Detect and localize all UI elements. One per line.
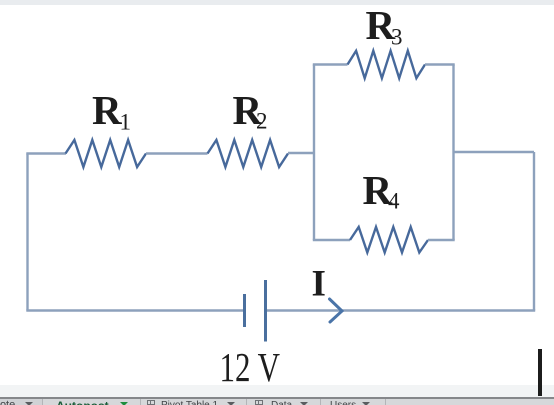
sheet tab Users: [330, 400, 356, 405]
sheet tab Autopost (active): [56, 399, 109, 405]
wire R1 to R2: [146, 152, 208, 154]
tab separator: [320, 399, 321, 405]
current arrow I: [330, 299, 343, 322]
grid icon Pivot Table: [147, 400, 155, 405]
tab separator: [42, 399, 43, 405]
wire parallel block left vertical: [313, 65, 315, 241]
top toolbar edge band: [0, 0, 554, 5]
wire top branch right: [425, 63, 455, 65]
sheet bar top border: [0, 397, 554, 399]
text cursor: [538, 349, 541, 396]
tab separator: [140, 399, 141, 405]
wire left vertical: [26, 154, 28, 311]
label R2: [233, 87, 268, 134]
battery V1 (12 V): [245, 280, 266, 342]
resistor R1: [66, 140, 147, 167]
wire bottom right segment: [266, 309, 536, 311]
svg-text:R: R: [92, 87, 122, 133]
svg-text:I: I: [312, 264, 326, 305]
wire top-left horizontal: [26, 152, 66, 154]
svg-text:2: 2: [256, 109, 268, 134]
tab separator: [246, 399, 247, 405]
svg-text:12 V: 12 V: [220, 344, 281, 390]
wire bottom branch right: [428, 239, 455, 241]
sheet tab Note: [0, 399, 42, 405]
label I: [312, 264, 326, 305]
tab separator: [385, 399, 386, 405]
resistor R3: [348, 51, 426, 78]
svg-text:1: 1: [120, 110, 132, 135]
sheet tab Pivot Table 1: [161, 400, 218, 405]
label R4: [363, 167, 401, 214]
label R1: [92, 87, 131, 135]
label 12 V: [220, 344, 281, 390]
wire bottom left segment: [26, 309, 244, 311]
wire R2 to parallel block: [288, 152, 315, 154]
sheet tab bar: [0, 399, 554, 405]
wire right vertical: [533, 152, 535, 311]
wire node B to right edge: [454, 151, 535, 153]
wire top branch left: [313, 63, 348, 65]
pale strip above sheet bar: [0, 385, 554, 397]
grid icon Data: [255, 400, 263, 405]
resistor R2: [208, 140, 289, 167]
wire parallel block right vertical: [452, 65, 454, 241]
wire bottom branch left: [313, 239, 350, 241]
label R3: [366, 2, 403, 50]
resistor R4: [350, 227, 428, 253]
svg-text:4: 4: [388, 189, 400, 214]
sheet tab Data: [271, 400, 292, 405]
svg-text:3: 3: [391, 25, 403, 50]
